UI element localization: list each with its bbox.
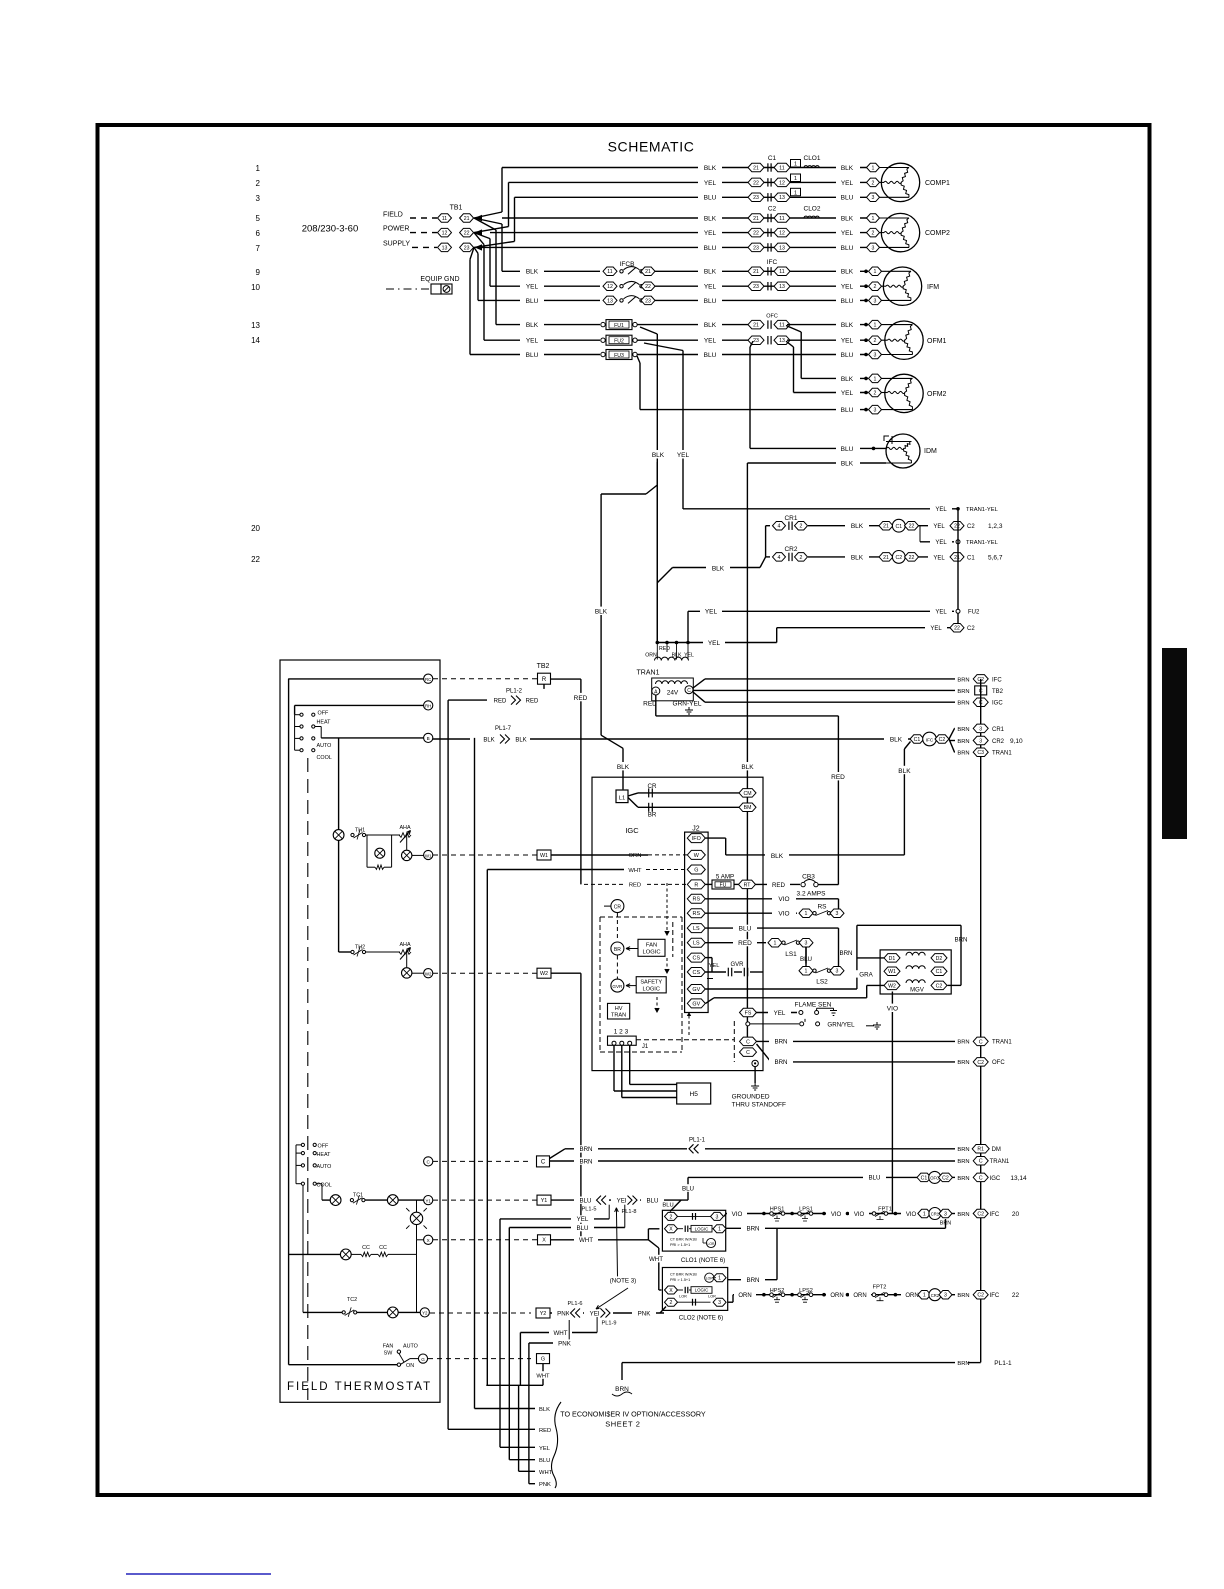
svg-text:22: 22 — [645, 284, 651, 290]
compressor lockout CLO2 box — [662, 1268, 727, 1311]
arrow SAFETY LOGIC to GVR — [626, 985, 636, 987]
svg-text:21: 21 — [753, 216, 759, 222]
svg-text:IFC: IFC — [990, 1293, 1000, 1299]
svg-text:C2: C2 — [977, 1293, 984, 1299]
svg-text:PNK: PNK — [638, 1310, 652, 1317]
svg-text:RS: RS — [693, 911, 701, 917]
wire OFC row1 branch to OFM2 BLK — [786, 326, 801, 333]
svg-text:GROUNDED: GROUNDED — [732, 1094, 770, 1101]
TB2 terminal W2 — [537, 968, 551, 978]
TB1 terminal 12 — [438, 228, 452, 237]
svg-text:22: 22 — [954, 626, 960, 632]
label BLK after FU1 — [698, 321, 722, 328]
OFC aux contact — [917, 1173, 931, 1182]
OFC contact row1 — [748, 320, 764, 329]
svg-text:BLK: BLK — [704, 215, 717, 222]
svg-text:YEL: YEL — [935, 507, 947, 513]
CR2 contact — [766, 556, 770, 558]
label BLU after IFCB — [698, 297, 722, 304]
svg-text:21: 21 — [753, 165, 759, 171]
black index tab on right edge — [1162, 648, 1187, 839]
svg-text:CT BRK W/A1B: CT BRK W/A1B — [670, 1238, 697, 1242]
svg-text:YEL: YEL — [704, 338, 717, 345]
svg-text:LOR: LOR — [708, 1242, 716, 1246]
MGV terminal W2 — [884, 981, 900, 990]
svg-text:BRN: BRN — [957, 677, 969, 683]
PNK jog from Y2 plug — [568, 1320, 570, 1343]
svg-text:BLU: BLU — [704, 298, 717, 305]
svg-text:BLK: BLK — [898, 768, 911, 775]
RS switch symbol — [799, 909, 813, 918]
svg-text:2: 2 — [800, 524, 803, 530]
svg-text:BLK: BLK — [595, 609, 608, 616]
svg-text:BLK: BLK — [652, 452, 665, 459]
svg-text:BLK: BLK — [851, 523, 864, 530]
svg-text:AHA: AHA — [399, 825, 410, 831]
wire CR1 to IFC terminal — [952, 1213, 959, 1215]
wire FU3 branch to OFM2 BLU — [637, 356, 640, 363]
svg-text:LOGIC: LOGIC — [695, 1226, 709, 1231]
wire selector to TC1 — [316, 1183, 322, 1185]
wire C to TRAN1 right — [757, 1040, 959, 1042]
contactor C2 contact row3 — [748, 243, 764, 252]
MGV coil D — [906, 952, 925, 955]
J2 pin GV — [687, 999, 705, 1008]
BRN break to PL1-1 — [621, 1363, 623, 1380]
equipment ground dash-dot lead — [386, 288, 430, 290]
BLU tap row — [509, 1227, 625, 1229]
lamp bracket lower — [416, 1225, 418, 1240]
svg-text:RED: RED — [738, 940, 752, 947]
svg-text:W1: W1 — [425, 853, 432, 858]
svg-text:1: 1 — [794, 162, 797, 168]
svg-text:MGV: MGV — [910, 988, 924, 994]
svg-text:12: 12 — [779, 230, 785, 236]
svg-text:2: 2 — [800, 555, 803, 561]
svg-text:G: G — [541, 1357, 545, 1363]
label YEL — [928, 522, 950, 529]
svg-text:ORN: ORN — [905, 1293, 918, 1299]
svg-text:OFC: OFC — [766, 314, 778, 320]
svg-text:22: 22 — [909, 555, 915, 561]
CLO1 pin X — [665, 1225, 678, 1233]
svg-text:C2: C2 — [977, 1211, 984, 1217]
W1 dashed to TB2-W1 — [433, 854, 537, 856]
field power dashed leads — [410, 217, 437, 219]
svg-text:21: 21 — [883, 555, 889, 561]
svg-text:VIO: VIO — [887, 1006, 898, 1013]
svg-text:BLU: BLU — [841, 407, 854, 414]
svg-text:AHA: AHA — [399, 942, 410, 948]
svg-text:C1: C1 — [895, 524, 902, 530]
WHT jog from Y2 plug — [596, 1317, 598, 1333]
svg-text:12: 12 — [607, 284, 613, 290]
contactor C1 contact row1 — [748, 163, 764, 172]
svg-text:11: 11 — [779, 322, 784, 328]
wire phase1 drop TB1-21 to IFCB 11 — [474, 218, 502, 224]
wire fan sw to G — [401, 1359, 410, 1365]
CR1 contact — [766, 525, 770, 527]
wire C up to DM row — [550, 1149, 566, 1159]
J2 connector body — [685, 832, 709, 1012]
svg-text:YEL: YEL — [526, 284, 539, 291]
wire phase2 drop TB1-22 to IFCB 12 — [474, 233, 490, 239]
svg-text:LPS2: LPS2 — [799, 1288, 813, 1294]
TH1 sub circuit — [366, 834, 368, 836]
svg-text:C1: C1 — [936, 969, 943, 975]
svg-text:BLK: BLK — [704, 165, 717, 172]
wire R down to PL1-2 — [543, 684, 545, 700]
svg-text:YEL: YEL — [526, 338, 539, 345]
wire CR2 to IFC terminal — [952, 1294, 959, 1296]
svg-text:3: 3 — [836, 969, 839, 975]
J2 pin RS — [687, 909, 705, 918]
svg-text:LS: LS — [693, 941, 700, 947]
J1 wires to H5 — [613, 1045, 615, 1091]
svg-text:C: C — [979, 1039, 983, 1045]
svg-text:COMP1: COMP1 — [925, 180, 950, 187]
label RED on riser — [827, 772, 850, 780]
MGV terminal C2 — [931, 981, 947, 990]
svg-text:HEAT: HEAT — [317, 719, 332, 725]
GVR contact on CS2 — [706, 971, 727, 973]
TB1 wire arrowheads — [475, 215, 483, 221]
RED economizer drop — [447, 700, 449, 1429]
TC1 X circle — [387, 1195, 398, 1206]
svg-text:TRAN1: TRAN1 — [637, 670, 660, 677]
CLO1 logic box — [678, 1228, 684, 1230]
label BLU at IDM — [836, 445, 860, 452]
svg-text:3: 3 — [872, 195, 875, 201]
contactor C1 contact row3 — [748, 193, 764, 202]
svg-text:4: 4 — [778, 555, 781, 561]
svg-text:YEL: YEL — [930, 626, 942, 632]
WHT drop — [519, 1333, 521, 1386]
svg-text:X: X — [542, 1238, 546, 1244]
svg-text:YEL: YEL — [933, 555, 945, 561]
svg-text:12: 12 — [442, 230, 448, 236]
CLO1 pin 2 — [665, 1212, 678, 1220]
svg-text:X: X — [669, 1227, 673, 1233]
terminal CM — [739, 789, 756, 798]
WHT collector — [486, 1384, 543, 1386]
terminal Y1 to TB2 dashed — [433, 1199, 537, 1201]
compressor lockout CLO1 coil — [804, 166, 819, 168]
svg-text:PL1-1: PL1-1 — [994, 1360, 1012, 1367]
svg-text:BLK: BLK — [526, 269, 539, 276]
svg-text:21: 21 — [954, 555, 960, 561]
MGV coil C — [906, 980, 925, 983]
relay BR circle — [611, 942, 624, 955]
terminal G to TB2 dashed — [428, 1358, 531, 1360]
label BLK at L1 riser — [612, 762, 634, 770]
svg-text:VIO: VIO — [778, 911, 789, 918]
svg-text:X: X — [427, 1238, 430, 1243]
VIO drop from MGV W2 — [891, 992, 893, 1214]
OFM1 terminals — [864, 323, 868, 327]
svg-text:C2: C2 — [768, 206, 777, 213]
CLO1 LOR circle — [706, 1238, 715, 1247]
svg-text:BRN: BRN — [957, 1060, 969, 1066]
IGC C terminal lower — [740, 1048, 757, 1057]
main gas valve MGV box — [880, 950, 951, 994]
relay coil CR2 bottom — [918, 1290, 931, 1299]
svg-text:BLU: BLU — [704, 245, 717, 252]
CLO2 jumper — [678, 1301, 711, 1303]
svg-text:Y2: Y2 — [540, 1311, 547, 1317]
bottom PL1-1 row — [622, 1362, 959, 1364]
svg-text:YEL: YEL — [841, 180, 854, 187]
svg-text:2: 2 — [670, 1300, 673, 1306]
svg-text:1: 1 — [805, 969, 808, 975]
svg-text:BLU: BLU — [841, 245, 854, 252]
svg-text:HPS1: HPS1 — [770, 1207, 785, 1213]
CLO2 pin X — [665, 1286, 678, 1294]
svg-text:THRU STANDOFF: THRU STANDOFF — [732, 1102, 786, 1109]
svg-text:BLU: BLU — [868, 1175, 880, 1182]
label YEL before fuse — [520, 337, 544, 344]
svg-text:RS: RS — [693, 897, 701, 903]
svg-text:W2: W2 — [425, 972, 432, 977]
svg-text:CR1: CR1 — [784, 515, 797, 522]
wire TRAN1-C fan to IGC — [693, 692, 705, 702]
svg-text:VIO: VIO — [778, 896, 789, 903]
label BLU before fuse — [520, 351, 544, 358]
svg-text:BRN: BRN — [746, 1277, 759, 1284]
svg-text:RED: RED — [574, 695, 588, 702]
svg-text:SAFETY: SAFETY — [640, 980, 662, 986]
wire OFC row2 left branch down to IDM — [750, 341, 753, 347]
svg-text:20: 20 — [251, 524, 260, 533]
terminal W2 circle — [424, 969, 433, 978]
IFCB pole 2 — [600, 282, 652, 291]
CR contact in IGC — [638, 792, 740, 794]
svg-text:13,14: 13,14 — [1010, 1175, 1027, 1182]
dashed inner segments — [672, 922, 674, 957]
terminal Y1 circle — [424, 1196, 433, 1205]
svg-text:LS1: LS1 — [785, 951, 797, 958]
svg-text:YEL: YEL — [577, 1216, 589, 1223]
svg-text:YEL: YEL — [704, 284, 717, 291]
svg-text:VIO: VIO — [906, 1212, 917, 1218]
H5 spark box — [677, 1083, 711, 1104]
svg-text:R: R — [694, 882, 698, 888]
label BLU at OFM — [836, 351, 860, 358]
svg-text:1: 1 — [794, 176, 797, 182]
svg-text:WHT: WHT — [579, 1237, 593, 1244]
label BLK — [845, 522, 869, 529]
svg-text:CR2: CR2 — [992, 739, 1005, 745]
TRAN1 ground symbol — [688, 707, 690, 710]
svg-text:22: 22 — [464, 230, 470, 236]
wire C to TRAN1 row — [550, 1160, 959, 1162]
label BLK row 1 at motor — [836, 164, 860, 171]
wire LS2 RED — [706, 942, 767, 944]
svg-text:BLU: BLU — [539, 1458, 550, 1464]
svg-text:23: 23 — [645, 298, 651, 304]
terminal 21 to C1 — [950, 553, 964, 562]
svg-text:YEL: YEL — [841, 284, 854, 291]
svg-text:FU2: FU2 — [614, 339, 624, 345]
label YEL at OFM — [836, 337, 860, 344]
svg-text:C: C — [746, 1050, 750, 1056]
svg-text:CLO1: CLO1 — [804, 155, 821, 162]
Y2 to CLO2 pin2 — [660, 1307, 666, 1314]
svg-text:RED: RED — [629, 883, 641, 889]
wire FU1 branch to BLK bus — [640, 327, 657, 334]
CLO2 LOR circle — [705, 1273, 714, 1282]
svg-text:C2: C2 — [977, 1060, 984, 1066]
svg-text:LS2: LS2 — [816, 979, 828, 986]
svg-text:1: 1 — [718, 1276, 721, 1282]
svg-text:1,2,3: 1,2,3 — [988, 523, 1003, 530]
svg-text:IFC: IFC — [992, 677, 1002, 683]
WHT riser for G pin — [486, 870, 488, 1386]
svg-text:3: 3 — [979, 738, 982, 744]
COMP2 terminal 2 — [867, 228, 880, 237]
fuse FU3 — [601, 352, 605, 356]
svg-text:9: 9 — [256, 268, 261, 277]
wire phase2 drop TB1-22 to FU2 — [474, 233, 484, 245]
svg-text:EQUIP GND: EQUIP GND — [420, 276, 459, 283]
TRAN1-YEL tap row2 — [920, 541, 954, 543]
svg-text:ORN: ORN — [629, 853, 642, 859]
svg-text:1: 1 — [923, 1211, 926, 1217]
wire BLK branch to CR coils — [657, 568, 672, 583]
terminal Y2 to TB2 dashed — [430, 1312, 531, 1314]
svg-text:YEL: YEL — [677, 452, 690, 459]
YEL tap row — [500, 1218, 609, 1220]
svg-text:208/230-3-60: 208/230-3-60 — [302, 224, 359, 235]
wire W1 to IGC — [551, 854, 648, 856]
svg-text:YEL: YEL — [935, 540, 947, 546]
svg-text:IFC: IFC — [926, 737, 934, 742]
label BLK at OFM — [836, 321, 860, 328]
svg-text:22: 22 — [954, 524, 960, 530]
thermostat heat stage 2 TH2 — [338, 840, 340, 952]
svg-text:AUTO: AUTO — [317, 743, 332, 749]
IFCB pole 3 — [600, 296, 652, 305]
TRAN1 primary taps — [656, 643, 658, 660]
svg-text:2: 2 — [670, 1214, 673, 1220]
svg-text:C: C — [979, 1159, 983, 1165]
wire RH left — [295, 704, 424, 706]
svg-text:2: 2 — [874, 284, 877, 290]
wire row 10 YEL through IFCB — [490, 285, 868, 287]
terminal G circle — [418, 1354, 427, 1363]
svg-text:13: 13 — [779, 338, 785, 344]
svg-text:R1: R1 — [977, 1147, 984, 1153]
arrow FAN LOGIC to BR — [626, 948, 638, 950]
svg-text:D2: D2 — [936, 956, 943, 962]
svg-text:3: 3 — [716, 1214, 719, 1220]
svg-text:BRN: BRN — [957, 1361, 969, 1367]
svg-text:C2: C2 — [939, 737, 946, 743]
BLK long row rises to IFC coil — [903, 749, 905, 855]
svg-text:FIELD THERMOSTAT: FIELD THERMOSTAT — [287, 1381, 432, 1393]
svg-text:BLU: BLU — [646, 1197, 658, 1204]
right mid vertical YEL bus — [957, 509, 959, 628]
svg-text:C2: C2 — [936, 983, 943, 989]
svg-text:FU3: FU3 — [614, 353, 624, 359]
svg-text:1: 1 — [923, 1293, 926, 1299]
J2 pin W — [687, 850, 705, 859]
IGC C terminal upper — [740, 1037, 757, 1046]
label BLK CR feed — [706, 564, 730, 572]
svg-text:21: 21 — [753, 269, 759, 275]
svg-text:AUTO: AUTO — [317, 1164, 332, 1170]
svg-text:22: 22 — [753, 180, 759, 186]
svg-text:2: 2 — [872, 180, 875, 186]
MGV D1 stub — [857, 957, 884, 959]
label BRN IFC — [955, 676, 972, 682]
svg-text:3: 3 — [836, 911, 839, 917]
svg-text:DM: DM — [992, 1147, 1001, 1153]
wire TC1 to Y1 — [398, 1199, 423, 1201]
IFC contact row1 — [748, 267, 764, 276]
svg-text:BRN: BRN — [957, 1147, 969, 1153]
J2 pin GV — [687, 985, 705, 994]
svg-text:YEL: YEL — [539, 1446, 551, 1452]
svg-text:VIO: VIO — [732, 1211, 743, 1218]
svg-text:TB2: TB2 — [537, 663, 550, 670]
svg-text:TO ECONOMI$ER IV OPTION/ACCESS: TO ECONOMI$ER IV OPTION/ACCESSORY — [560, 1410, 706, 1419]
OFC BLU row — [688, 1176, 920, 1178]
svg-text:RC: RC — [425, 677, 431, 682]
wire C1 coil to C2 terminal — [918, 525, 950, 527]
compressor lockout CLO1 box — [662, 1210, 725, 1251]
economizer brace — [552, 1402, 562, 1488]
svg-text:BRN: BRN — [957, 727, 969, 733]
wire FU1 out to OFC — [637, 324, 755, 326]
svg-text:HPS2: HPS2 — [770, 1288, 785, 1294]
svg-text:3: 3 — [718, 1300, 721, 1306]
svg-text:RED: RED — [539, 1428, 551, 1434]
svg-text:TB1: TB1 — [450, 205, 463, 212]
svg-text:4: 4 — [778, 524, 781, 530]
svg-text:C2: C2 — [942, 1175, 949, 1181]
svg-text:LOR: LOR — [679, 1295, 687, 1299]
BLU economizer drop — [508, 1228, 510, 1460]
economizer PNK row — [529, 1483, 535, 1485]
wire FU2 branch to YEL bus — [644, 343, 683, 351]
wire row 11 BLU through IFCB — [478, 299, 868, 301]
IFC coil row wire from PL1-7 — [433, 738, 911, 740]
X row WHT to CLO1 — [551, 1239, 648, 1241]
thermostat dashed vertical — [307, 758, 309, 1400]
cooling compensator CC — [340, 1249, 351, 1260]
svg-text:3: 3 — [874, 352, 877, 358]
indoor fan motor IFM — [883, 267, 921, 305]
svg-text:YEL: YEL — [709, 963, 721, 969]
TRAN1-YEL node dot — [956, 507, 960, 511]
svg-text:13: 13 — [251, 321, 260, 330]
svg-text:C1: C1 — [921, 1175, 928, 1181]
svg-text:SCHEMATIC: SCHEMATIC — [608, 139, 695, 155]
svg-text:IGC: IGC — [990, 1176, 1001, 1182]
dashed arrow SAFETY — [666, 958, 668, 973]
YEL row to C2-22 — [777, 627, 950, 629]
TH1 output — [406, 835, 408, 850]
svg-text:6: 6 — [256, 229, 261, 238]
svg-text:11: 11 — [607, 269, 612, 275]
svg-text:13: 13 — [779, 245, 785, 251]
svg-text:PL1-2: PL1-2 — [506, 689, 523, 695]
svg-text:IFC: IFC — [767, 259, 778, 266]
Y1 wire with plugs PL1-5 PL1-8 — [551, 1199, 688, 1201]
label BLK at IDM — [836, 460, 860, 467]
svg-text:ORN: ORN — [853, 1293, 866, 1299]
